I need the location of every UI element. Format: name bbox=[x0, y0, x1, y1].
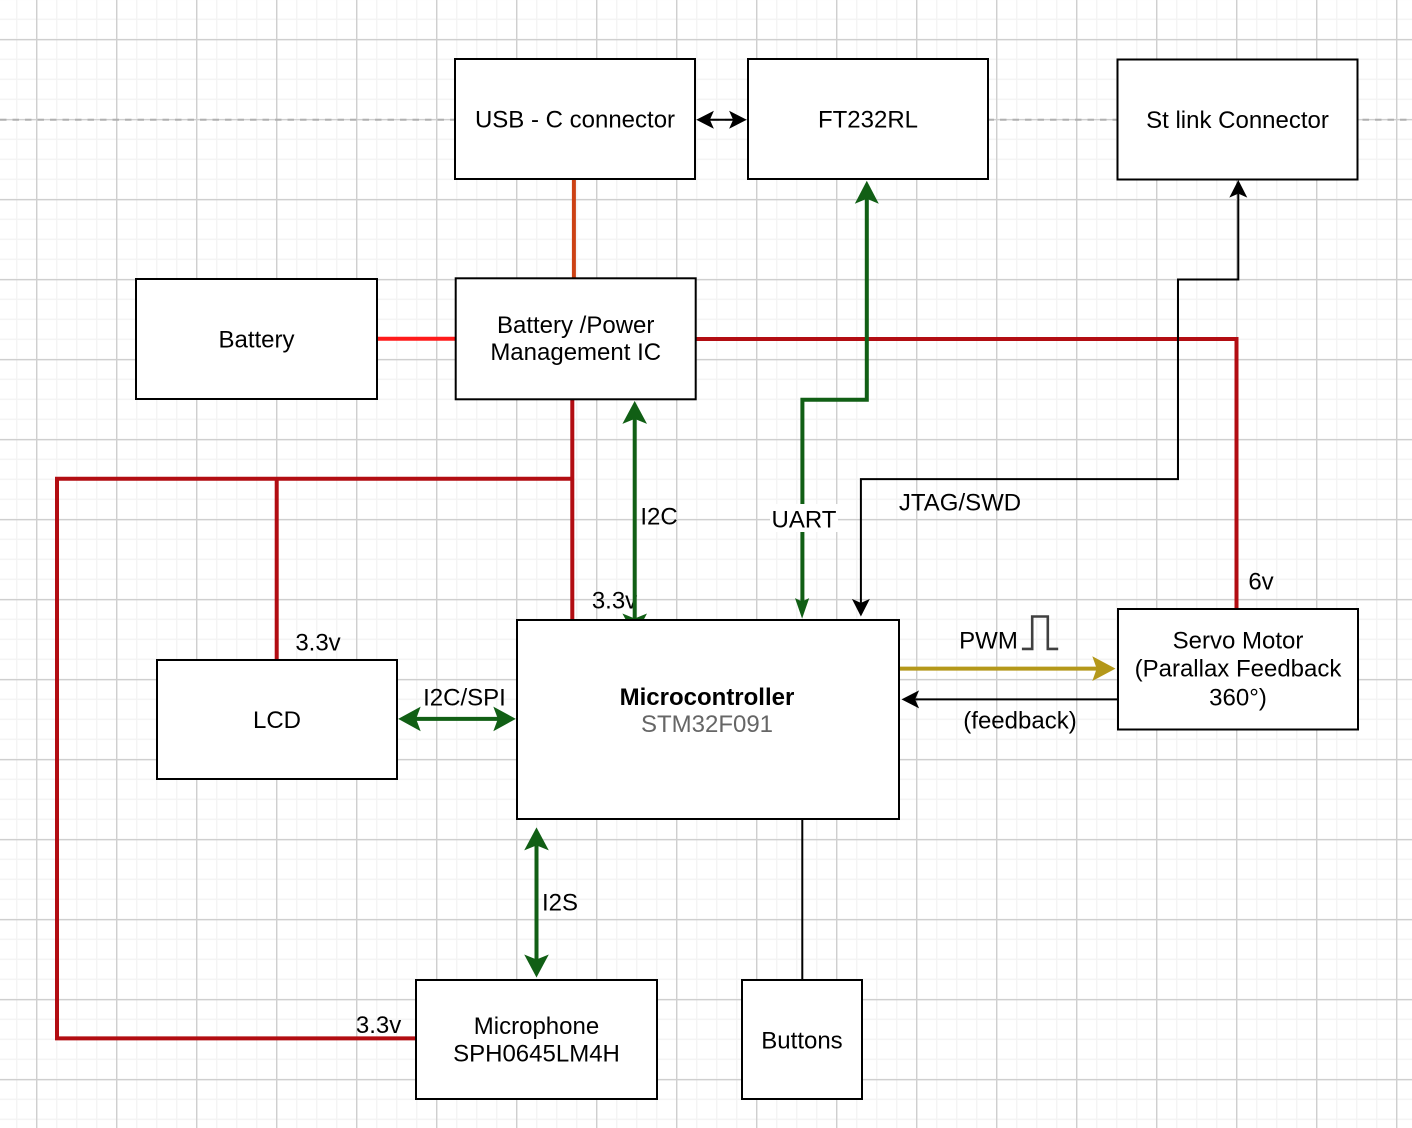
svg-text:3.3v: 3.3v bbox=[356, 1012, 401, 1039]
svg-text:360°): 360°) bbox=[1209, 685, 1267, 712]
svg-text:3.3v: 3.3v bbox=[592, 588, 637, 615]
svg-text:PWM: PWM bbox=[959, 628, 1018, 655]
svg-text:LCD: LCD bbox=[253, 707, 301, 734]
svg-text:I2C: I2C bbox=[640, 504, 677, 531]
svg-text:Microcontroller: Microcontroller bbox=[620, 684, 795, 711]
svg-text:(Parallax Feedback: (Parallax Feedback bbox=[1135, 656, 1343, 683]
svg-text:STM32F091: STM32F091 bbox=[641, 711, 773, 738]
svg-text:SPH0645LM4H: SPH0645LM4H bbox=[453, 1041, 620, 1068]
svg-text:3.3v: 3.3v bbox=[295, 630, 340, 657]
svg-text:FT232RL: FT232RL bbox=[818, 106, 918, 133]
svg-text:St link Connector: St link Connector bbox=[1146, 107, 1329, 134]
svg-text:Microphone: Microphone bbox=[474, 1013, 599, 1040]
svg-text:Management IC: Management IC bbox=[490, 339, 661, 366]
svg-text:Buttons: Buttons bbox=[761, 1028, 842, 1055]
svg-text:USB - C connector: USB - C connector bbox=[475, 106, 675, 133]
svg-text:I2S: I2S bbox=[542, 890, 578, 917]
svg-text:Servo Motor: Servo Motor bbox=[1173, 628, 1304, 655]
svg-text:I2C/SPI: I2C/SPI bbox=[423, 685, 506, 712]
svg-text:(feedback): (feedback) bbox=[963, 708, 1076, 735]
svg-text:Battery /Power: Battery /Power bbox=[497, 312, 654, 339]
svg-text:JTAG/SWD: JTAG/SWD bbox=[899, 490, 1021, 517]
svg-text:Battery: Battery bbox=[218, 327, 294, 354]
svg-text:6v: 6v bbox=[1248, 569, 1273, 596]
svg-text:UART: UART bbox=[772, 507, 837, 534]
